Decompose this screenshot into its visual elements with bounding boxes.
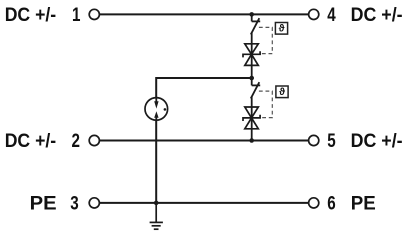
terminal 3 [89,198,99,208]
svg-text:DC +/-: DC +/- [351,131,403,152]
wire PE line 3-6 [99,202,309,204]
ground [150,203,163,229]
junction node PE [154,201,159,206]
junction node line2 [249,138,254,143]
svg-text:DC +/-: DC +/- [351,5,403,26]
terminal 2 [89,135,99,145]
thermal monitor box 1 [275,23,287,35]
suppressor diode F2 bidirectional [243,107,260,129]
svg-text:1: 1 [72,4,81,26]
wire arrester chain vertical [251,14,253,140]
suppressor diode F1 bidirectional [243,44,260,66]
thermal monitor box 2 [276,86,288,98]
svg-text:ϑ: ϑ [279,87,285,98]
disconnector F2 thermal switch [251,82,260,98]
junction node mid [249,76,254,81]
terminal 4 [309,9,319,19]
svg-text:PE: PE [30,194,57,215]
disconnector F1 thermal switch [251,18,260,34]
dashed link F1 to thermal monitor [259,27,272,53]
svg-text:DC +/-: DC +/- [5,5,57,26]
dashed link F2 to thermal monitor [259,91,272,118]
wire top line 1-4 [99,13,309,15]
svg-text:3: 3 [70,192,78,214]
wire branch between arresters to gas tube [156,78,252,203]
svg-text:2: 2 [71,130,79,152]
svg-text:DC +/-: DC +/- [5,131,57,152]
svg-text:PE: PE [351,194,376,215]
terminal 5 [309,135,319,145]
svg-text:6: 6 [327,192,335,214]
svg-text:4: 4 [327,4,336,26]
terminal 6 [309,198,319,208]
terminal 1 [89,9,99,19]
junction node top [249,12,254,17]
wire middle line 2-5 [99,140,309,142]
svg-text:ϑ: ϑ [279,24,285,35]
svg-text:5: 5 [327,130,336,152]
gas discharge tube F3 [145,97,168,122]
